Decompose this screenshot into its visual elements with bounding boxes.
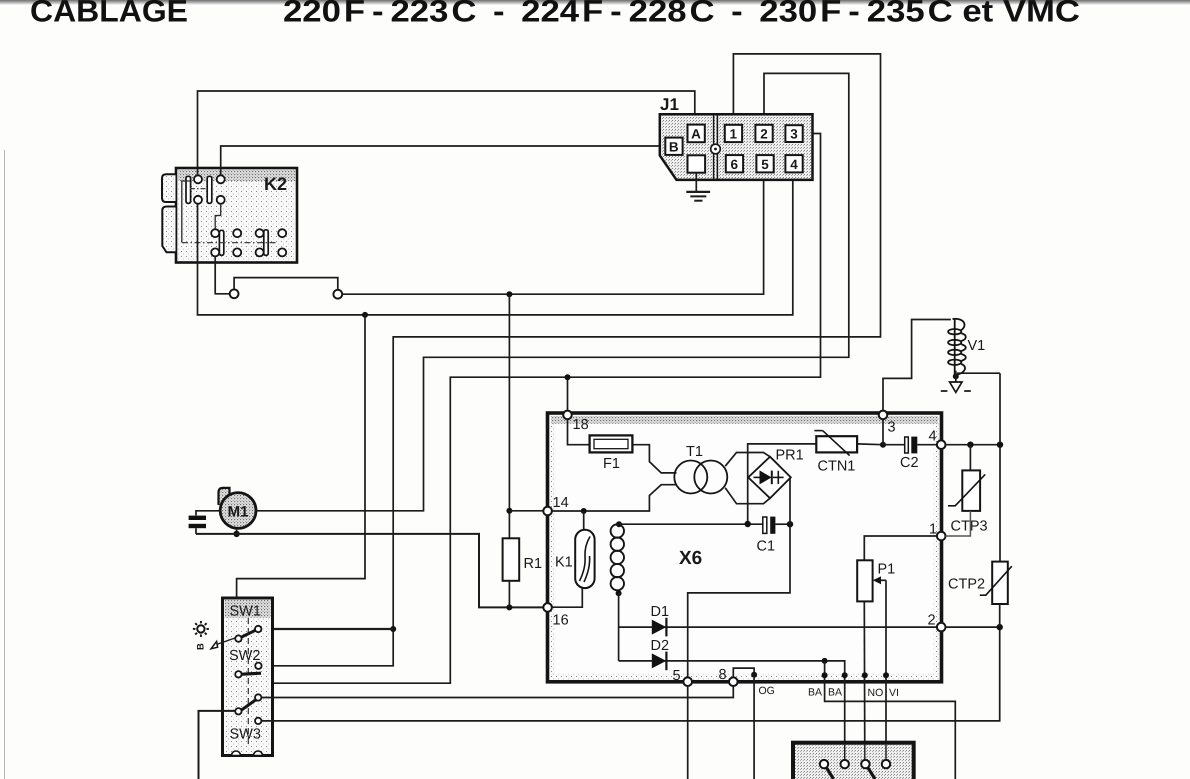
- lamp wire to SW1: [217, 638, 236, 645]
- svg-text:NO: NO: [868, 687, 884, 699]
- switch block SW body: [223, 598, 273, 756]
- wire C1 right lead: [775, 523, 790, 525]
- wire J1 pin 2 to M1: [256, 73, 849, 510]
- K2 contact circle r1c3: [256, 229, 264, 237]
- X6 pin 16: [543, 603, 552, 612]
- spark gap arrester symbol: [941, 382, 971, 392]
- wire CTP2 bottom lead: [999, 604, 1001, 627]
- svg-text:PR1: PR1: [776, 448, 804, 464]
- wire into block NO: [864, 745, 866, 760]
- wire into block BA2: [844, 745, 846, 760]
- K2 contact circle r2c4: [278, 248, 286, 256]
- wire neutral rail to X6 pin 16: [196, 534, 543, 608]
- J1 pin 5: [756, 155, 773, 172]
- fuse F1: [590, 435, 633, 472]
- svg-text:C1: C1: [757, 539, 776, 555]
- link terminal A (open circle): [230, 289, 239, 298]
- svg-text:B: B: [669, 139, 679, 154]
- wire F1 to T1 primary top: [632, 445, 676, 473]
- wire J1pin4 line to SW1 feed: [237, 315, 365, 621]
- svg-text:SW1: SW1: [230, 604, 261, 620]
- svg-text:2: 2: [928, 613, 936, 629]
- junction C1 left: [745, 521, 751, 527]
- wire J1 pin 1 to SW1/SW2: [261, 54, 880, 666]
- wire K2 pin2 to J1 pin B: [221, 146, 666, 175]
- wire pin4 to right rail: [946, 444, 1001, 446]
- SW3 lever: [241, 700, 256, 711]
- J1 pin blank: [688, 155, 706, 172]
- K2 inner frame line: [182, 181, 190, 243]
- wire PR1 left vertical to CTN1 rail: [748, 444, 817, 524]
- junction OG: [751, 672, 757, 678]
- X6 pin 3: [879, 411, 888, 420]
- SW2 contact upper: [255, 663, 261, 669]
- wire K1 bottom to pin16: [552, 588, 583, 607]
- X6 pin 4: [937, 440, 946, 449]
- SW mech dashed line: [247, 618, 249, 748]
- svg-text:CABLAGE: CABLAGE: [30, 0, 188, 29]
- svg-text:SW3: SW3: [230, 727, 261, 743]
- potentiometer P1: [857, 560, 895, 601]
- SW3 contact lower: [255, 718, 261, 724]
- K2 mech dash-dot link lower: [182, 242, 278, 244]
- K2 internal wire pin4 to contact row: [215, 204, 221, 229]
- wire D1 line to pin 2: [619, 626, 937, 628]
- heater connector block: [793, 743, 914, 779]
- wire SW3 upper to X6 pin 8: [261, 686, 733, 697]
- wire K2 contact r2c1 down to link terminal A: [215, 256, 229, 293]
- J1 pin B: [665, 138, 682, 155]
- wire pin 8 hook to OG: [733, 668, 754, 677]
- svg-text:R1: R1: [524, 556, 543, 572]
- wire CTP3 bottom to pin 1: [946, 511, 971, 536]
- SW1 contact left: [235, 635, 241, 641]
- K2 contact circle r2c3: [256, 248, 264, 256]
- X6 pin 18: [563, 411, 572, 420]
- wire P1 bottom to NO contact: [863, 601, 866, 760]
- junction K1 top: [581, 508, 587, 514]
- capacitor plate bottom: [189, 524, 206, 528]
- J1 pin 6: [726, 155, 743, 172]
- scan left fold line: [4, 150, 6, 779]
- junction pin18 feed: [565, 374, 571, 380]
- control board X6 body: [548, 413, 942, 682]
- wire pin1 to P1 top: [864, 536, 937, 560]
- svg-text:X6: X6: [679, 548, 702, 569]
- coil V1: [948, 319, 966, 375]
- M1 bottom stem: [236, 528, 238, 534]
- wire pin18 up to J1pin3 line: [567, 377, 569, 410]
- junction BA1 above border: [822, 672, 828, 678]
- wire coil top to C1 rail: [619, 523, 763, 525]
- thermistor CTP2: [948, 562, 1012, 604]
- wire C2 to pin 4: [917, 444, 937, 446]
- block lever 1: [827, 768, 834, 779]
- igniter K1: [555, 530, 595, 588]
- J1 pin 1: [725, 125, 742, 142]
- transformer T1: [674, 444, 727, 494]
- K2 mech dash-dot link upper: [190, 188, 208, 190]
- junction M1 bottom: [233, 531, 239, 537]
- K2 contact circle r1c4: [278, 229, 286, 237]
- K2 contact blade c1: [219, 230, 223, 255]
- junction CTP2 bottom node: [997, 624, 1003, 630]
- junction on K2pin3-J1pin4 wire: [362, 312, 368, 318]
- svg-text:K2: K2: [264, 174, 287, 194]
- wire K1 top lead: [583, 511, 585, 530]
- thermistor CTN1: [814, 431, 857, 475]
- wire K2 pin1 to J1 pin A: [198, 91, 695, 175]
- wire R1 branch vertical: [508, 294, 510, 538]
- SW3 contact upper: [255, 694, 261, 700]
- svg-text:K1: K1: [555, 555, 573, 571]
- svg-text:A: A: [691, 127, 701, 142]
- wire coil bottom to diode branch: [618, 593, 620, 661]
- K2 coil pin 3: [194, 196, 202, 204]
- svg-text:C2: C2: [900, 455, 919, 471]
- pennant marker: [211, 641, 218, 648]
- SW2 lever: [242, 673, 261, 674]
- SW bottom notch right: [254, 751, 263, 756]
- inductor coil L: [611, 524, 624, 590]
- block terminal 4: [882, 760, 890, 768]
- svg-text:CTN1: CTN1: [818, 459, 856, 475]
- J1 divider lines: [714, 114, 718, 180]
- svg-text:D2: D2: [651, 638, 670, 654]
- wire pin3 down to node: [882, 419, 884, 445]
- svg-text:2: 2: [760, 127, 768, 142]
- junction SW1 output: [390, 626, 396, 632]
- svg-text:VI: VI: [889, 687, 899, 699]
- J1 pin 4: [785, 155, 802, 172]
- wire PR1 right vertex to X6 pin 5: [688, 478, 790, 678]
- bridge rectifier PR1: [748, 448, 804, 499]
- svg-text:14: 14: [553, 495, 569, 511]
- relay K2 body: [176, 168, 297, 263]
- scan top gradient bar: [0, 0, 1190, 5]
- wire T1 secondary top to PR1: [725, 453, 770, 467]
- K2 armature blade left: [186, 176, 191, 203]
- svg-text:V1: V1: [968, 338, 986, 354]
- wire wiper to VI contact: [885, 580, 887, 760]
- SW3 pivot: [235, 708, 241, 714]
- block terminal 3: [861, 760, 869, 768]
- svg-text:5: 5: [673, 668, 681, 684]
- X6 pin 8: [729, 677, 738, 686]
- svg-text:3: 3: [790, 127, 798, 142]
- svg-text:8: 8: [719, 667, 727, 683]
- wire pin 2 to CTP2 node: [946, 626, 1000, 628]
- J1 pin 2: [755, 125, 772, 142]
- lamp symbol: [193, 621, 209, 637]
- capacitor C2: [900, 437, 919, 471]
- junction D2/BA1: [822, 658, 828, 664]
- ground: [686, 192, 710, 201]
- svg-text:J1: J1: [660, 95, 679, 114]
- wire pin 5 to bottom edge: [687, 686, 689, 779]
- junction VI above border: [883, 672, 889, 678]
- wire right rail down to CTP2: [999, 373, 1001, 561]
- svg-text:18: 18: [573, 417, 589, 433]
- svg-text:6: 6: [731, 157, 739, 172]
- thermistor CTP3: [948, 470, 988, 534]
- block lever 2: [868, 768, 875, 779]
- SW2 pivot: [235, 671, 241, 677]
- J1 pin 3: [785, 125, 802, 142]
- SW bottom notch left: [232, 751, 241, 756]
- svg-text:SW2: SW2: [229, 648, 260, 664]
- varistor coil V1 feed from pin3: [883, 320, 951, 411]
- connector J1 body: [660, 95, 813, 180]
- motor M1 tab: [219, 488, 230, 505]
- SW1 lever: [241, 630, 257, 638]
- J1 ground stem: [695, 173, 697, 192]
- svg-text:4: 4: [790, 157, 798, 172]
- wire V1 bottom to right rail: [957, 372, 1000, 374]
- junction R1 top on pin5 wire: [506, 291, 512, 297]
- diode D1: [651, 604, 670, 636]
- J1 pin A: [688, 125, 705, 143]
- wire CTP3 top lead: [969, 445, 971, 471]
- resistor R1: [503, 538, 542, 581]
- X6 pin 2: [937, 623, 946, 632]
- svg-text:220 F - 223 C - 224 F - 228: 220 F - 223 C - 224 F - 228 C - 230 F - …: [283, 0, 1080, 29]
- svg-text:D1: D1: [651, 604, 670, 620]
- junction R1 bottom: [506, 604, 512, 610]
- coil bottom junction: [616, 590, 622, 596]
- wire SW3 lower to CTP2 junction: [261, 627, 999, 721]
- junction pin14 rail: [506, 508, 512, 514]
- link bridge A to B: [234, 278, 338, 290]
- svg-text:16: 16: [553, 613, 569, 629]
- wire pin18 to F1: [568, 419, 590, 445]
- wire J1 pin 3 to SW2 output: [257, 134, 821, 684]
- svg-text:1: 1: [929, 522, 937, 538]
- svg-text:F1: F1: [603, 456, 620, 472]
- junction V1 bottom: [953, 373, 959, 379]
- coil top junction: [616, 521, 622, 527]
- spark gap stem: [955, 371, 957, 382]
- wire C2 left lead: [883, 444, 905, 446]
- wire CTN1 to pin3 node: [857, 443, 883, 446]
- svg-text:4: 4: [929, 429, 937, 445]
- svg-text:P1: P1: [878, 562, 896, 578]
- junction C1 right: [787, 521, 793, 527]
- SW1 lever tail curve: [236, 621, 238, 636]
- diode D2: [651, 638, 670, 670]
- K2 contact blade c3: [264, 230, 268, 256]
- block terminal 1: [820, 760, 828, 768]
- svg-text:3: 3: [888, 420, 896, 436]
- K2 left tab upper: [162, 174, 176, 202]
- wire BA1 drop and runner: [825, 661, 956, 779]
- capacitor C1: [757, 517, 776, 555]
- wire junction to pin 14: [509, 510, 543, 512]
- svg-text:5: 5: [761, 157, 769, 172]
- svg-text:CTP3: CTP3: [951, 519, 988, 535]
- K2 coil pin 1: [194, 175, 202, 183]
- K2 contact circle r2c2: [233, 248, 241, 256]
- K2 left tab lower: [162, 207, 175, 253]
- wire pin14 to T1 primary bottom: [552, 485, 677, 511]
- J1 index circle: [711, 144, 721, 154]
- K2 contact circle r2c1: [211, 248, 219, 256]
- K2 contact circle r1c2: [233, 229, 241, 237]
- wire into block VI: [885, 745, 887, 760]
- X6 pin 1: [937, 532, 946, 541]
- K2 armature blade right: [207, 176, 212, 203]
- svg-text:B: B: [196, 643, 207, 650]
- svg-text:1: 1: [730, 127, 738, 142]
- SW2 output tick: [257, 676, 259, 683]
- motor M1: [220, 493, 256, 529]
- X6 pin 5: [683, 677, 692, 686]
- wire T1 secondary bottom to PR1: [725, 488, 770, 504]
- SW1 contact right: [255, 626, 261, 632]
- wire SW1 output to junction: [261, 628, 393, 630]
- junction BA2 above border: [842, 672, 848, 678]
- wire link terminal B to J1 pin 5: [342, 172, 763, 294]
- junction NO above border: [862, 672, 868, 678]
- K2 coil pin 4: [217, 196, 225, 204]
- junction right rail / pin4: [997, 442, 1003, 448]
- block terminal 2: [841, 760, 849, 768]
- capacitor plate top: [189, 516, 206, 520]
- svg-text:M1: M1: [228, 503, 249, 520]
- svg-text:OG: OG: [759, 685, 775, 697]
- wire OG to bottom edge: [753, 675, 755, 779]
- junction CTP3 top: [967, 442, 973, 448]
- svg-text:BA: BA: [828, 687, 842, 699]
- svg-text:CTP2: CTP2: [948, 577, 985, 593]
- X6 pin 14: [543, 507, 552, 516]
- junction pin3 node: [880, 442, 886, 448]
- link terminal B (open circle): [333, 290, 342, 299]
- wire M1 left lead to capacitor: [196, 511, 220, 516]
- P1 wiper arrow: [873, 576, 886, 584]
- wire R1 bottom: [508, 581, 510, 608]
- wire SW3 pivot to bottom edge: [199, 711, 236, 779]
- svg-text:T1: T1: [686, 444, 703, 460]
- wire K2 pin3 to J1 pin 4: [198, 172, 793, 315]
- K2 contact circle r1c1: [211, 229, 219, 237]
- wire D2 line: [619, 661, 845, 760]
- svg-text:BA: BA: [808, 687, 822, 699]
- K2 coil pin 2: [217, 175, 225, 183]
- wire capacitor to neutral rail: [195, 528, 197, 534]
